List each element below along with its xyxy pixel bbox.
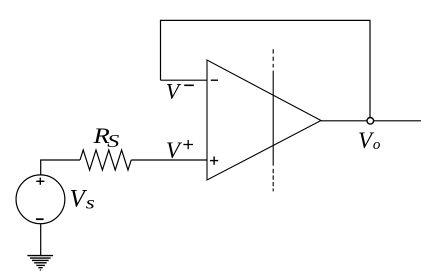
feedback wire bbox=[161, 20, 371, 117]
svg-text:S: S bbox=[107, 131, 119, 151]
svg-text:V: V bbox=[166, 138, 183, 163]
op-amp U1 bbox=[207, 60, 321, 180]
label Vs bbox=[70, 186, 95, 213]
node Vo bbox=[367, 118, 374, 125]
wire resistor to op-amp noninverting input bbox=[131, 159, 207, 161]
wire Vs to ground bbox=[40, 224, 42, 256]
svg-text:o: o bbox=[373, 137, 381, 153]
wire Vs to resistor RS bbox=[41, 160, 80, 175]
op-amp power supply line (dashed) bbox=[272, 49, 274, 191]
wire output bbox=[321, 120, 421, 122]
label RS bbox=[92, 123, 119, 151]
svg-text:V: V bbox=[166, 78, 182, 103]
svg-text:s: s bbox=[86, 193, 95, 213]
label Vo bbox=[358, 128, 381, 153]
voltage source Vs bbox=[16, 175, 65, 224]
ground bbox=[27, 256, 53, 270]
svg-text:V: V bbox=[70, 186, 88, 213]
wire inverting input bbox=[161, 79, 208, 81]
label V+ bbox=[166, 138, 193, 163]
label V- bbox=[166, 78, 194, 103]
resistor RS bbox=[80, 150, 131, 170]
